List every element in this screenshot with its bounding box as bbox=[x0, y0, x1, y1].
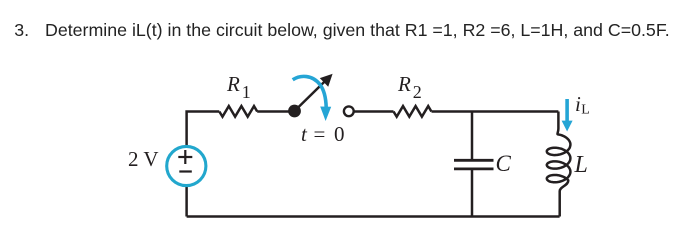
wire: bottom rail bbox=[187, 215, 560, 218]
svg-text:R: R bbox=[226, 72, 240, 96]
svg-text:i: i bbox=[575, 92, 581, 116]
svg-text:2: 2 bbox=[413, 82, 422, 102]
svg-text:L: L bbox=[574, 152, 588, 178]
svg-text:2 V: 2 V bbox=[128, 147, 159, 171]
resistor R2 bbox=[394, 106, 432, 117]
voltage source plus sign bbox=[178, 150, 192, 172]
svg-text:t=0: t=0 bbox=[301, 122, 345, 146]
voltage source circle bbox=[167, 146, 206, 185]
iL current arrow (cyan) bbox=[565, 99, 569, 121]
svg-text:L: L bbox=[581, 103, 590, 118]
wire: R1 to switch dot bbox=[257, 110, 294, 113]
svg-text:1: 1 bbox=[242, 82, 251, 102]
voltage source minus sign bbox=[179, 170, 192, 172]
wire: switch open terminal to R2 bbox=[354, 110, 393, 113]
switch dot (closed terminal) bbox=[288, 105, 301, 118]
wire: capacitor branch bottom bbox=[471, 170, 474, 217]
labels (serif) bbox=[128, 72, 590, 178]
wire: top-left corner (left vertical to R1) bbox=[187, 112, 220, 147]
wire: R2 to top-right corner bbox=[432, 110, 559, 113]
wire: capacitor branch top bbox=[471, 112, 474, 160]
inductor L coil bbox=[547, 112, 571, 217]
svg-text:R: R bbox=[397, 72, 411, 96]
capacitor C plates bbox=[454, 160, 494, 169]
problem statement text bbox=[14, 20, 29, 41]
switch motion arrowhead (cyan) bbox=[320, 107, 331, 122]
resistor R1 bbox=[219, 106, 257, 117]
svg-text:C: C bbox=[496, 151, 512, 176]
wire: left vertical below source bbox=[185, 186, 188, 217]
switch open terminal circle bbox=[344, 106, 354, 116]
switch arm with arrowhead bbox=[295, 81, 326, 111]
switch motion arc (cyan) bbox=[293, 76, 327, 107]
